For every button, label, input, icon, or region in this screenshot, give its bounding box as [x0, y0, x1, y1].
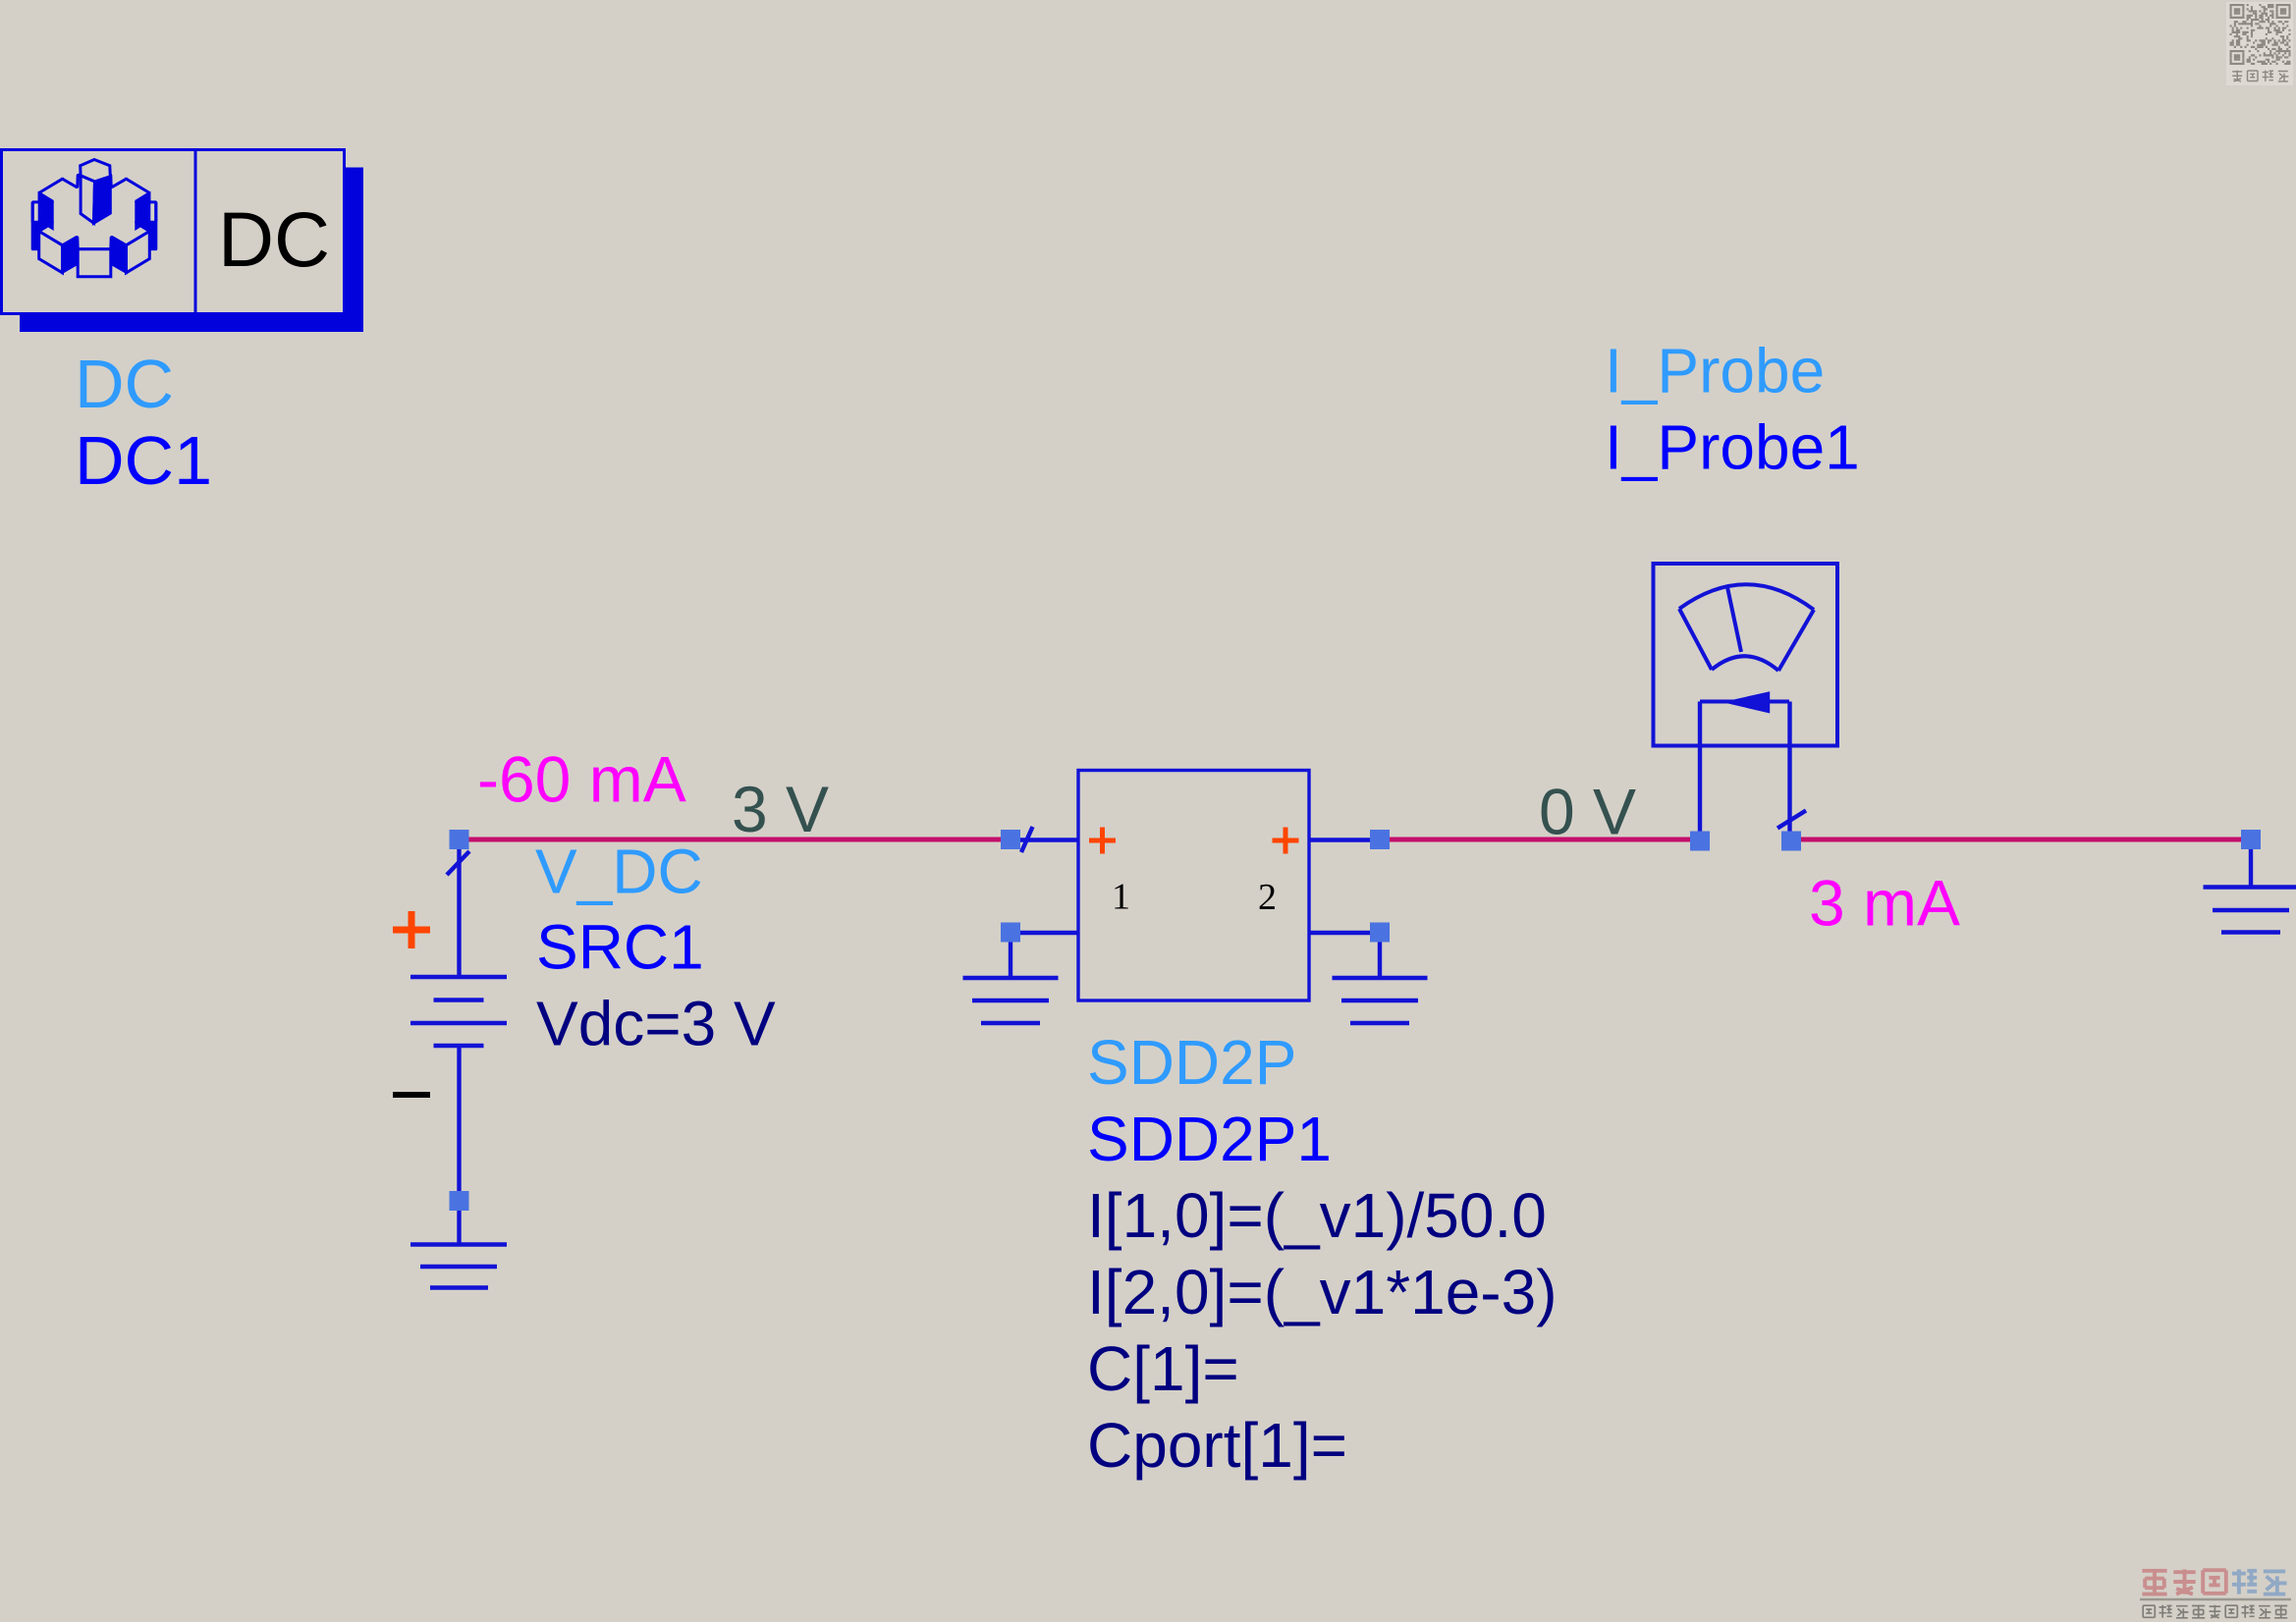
svg-text:SDD2P: SDD2P	[1087, 1027, 1296, 1098]
svg-text:V_DC: V_DC	[535, 837, 703, 907]
svg-text:DC1: DC1	[75, 422, 212, 499]
svg-text:Cport[1]=: Cport[1]=	[1087, 1410, 1347, 1481]
svg-text:3 V: 3 V	[732, 773, 829, 845]
svg-text:0 V: 0 V	[1539, 776, 1636, 848]
svg-text:Vdc=3 V: Vdc=3 V	[536, 989, 776, 1059]
svg-text:1: 1	[1112, 877, 1130, 918]
svg-text:2: 2	[1258, 877, 1277, 918]
svg-text:SDD2P1: SDD2P1	[1087, 1104, 1332, 1174]
svg-text:-60 mA: -60 mA	[477, 743, 686, 816]
svg-text:I_Probe1: I_Probe1	[1605, 412, 1860, 483]
svg-text:DC: DC	[218, 195, 330, 283]
svg-text:I[2,0]=(_v1*1e-3): I[2,0]=(_v1*1e-3)	[1087, 1257, 1558, 1327]
svg-text:C[1]=: C[1]=	[1087, 1333, 1239, 1404]
svg-text:I[1,0]=(_v1)/50.0: I[1,0]=(_v1)/50.0	[1087, 1180, 1547, 1251]
svg-text:I_Probe: I_Probe	[1605, 336, 1825, 406]
svg-text:SRC1: SRC1	[536, 912, 704, 983]
svg-text:3 mA: 3 mA	[1809, 867, 1960, 940]
svg-text:DC: DC	[75, 346, 174, 422]
